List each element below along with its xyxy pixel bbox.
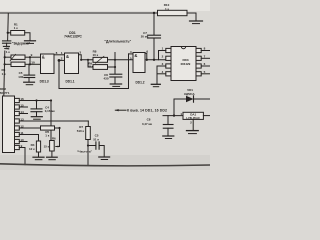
- svg-text:12 к: 12 к: [29, 147, 35, 151]
- svg-text:1: 1: [61, 51, 63, 55]
- svg-text:9: 9: [31, 53, 33, 57]
- svg-text:4: 4: [130, 50, 132, 54]
- svg-text:0,15 мк: 0,15 мк: [45, 109, 56, 113]
- svg-text:20 мк: 20 мк: [141, 35, 149, 39]
- svg-text:74АС132РС: 74АС132РС: [64, 35, 82, 39]
- svg-text:15 к: 15 к: [88, 65, 94, 69]
- svg-text:0,47 мк: 0,47 мк: [142, 122, 153, 126]
- svg-text:1 к: 1 к: [2, 72, 7, 76]
- svg-text:&: &: [66, 54, 69, 59]
- svg-text:DD1.2: DD1.2: [135, 80, 144, 84]
- svg-text:6: 6: [146, 50, 148, 54]
- svg-text:10: 10: [31, 60, 35, 64]
- svg-text:IR4429: IR4429: [181, 62, 191, 66]
- svg-text:К561ГГ1: К561ГГ1: [0, 91, 10, 95]
- svg-text:10: 10: [20, 138, 24, 142]
- svg-text:1 к: 1 к: [45, 134, 50, 138]
- svg-text:R6: R6: [52, 137, 56, 141]
- svg-text:“Частота”: “Частота”: [77, 150, 93, 154]
- svg-text:1 к: 1 к: [14, 26, 19, 30]
- svg-text:5: 5: [130, 56, 132, 60]
- svg-text:1 к: 1 к: [6, 50, 11, 54]
- svg-text:15 к: 15 к: [44, 144, 50, 148]
- svg-text:14: 14: [20, 110, 24, 114]
- svg-text:“Задержка”: “Задержка”: [12, 41, 31, 45]
- svg-text:8: 8: [56, 51, 58, 55]
- svg-text:3: 3: [79, 50, 81, 54]
- svg-text:L78L05AC: L78L05AC: [186, 116, 200, 120]
- svg-text:100: 100: [18, 75, 23, 79]
- svg-text:DD1.3: DD1.3: [40, 80, 49, 84]
- svg-text:2: 2: [61, 57, 63, 61]
- svg-text:51 н: 51 н: [93, 137, 99, 141]
- svg-text:430: 430: [103, 77, 108, 81]
- svg-text:12: 12: [20, 125, 24, 129]
- svg-text:510 к: 510 к: [77, 129, 85, 133]
- svg-text:1 к: 1 к: [165, 7, 170, 11]
- svg-text:К выв. 14 DD1, 16 DD2: К выв. 14 DD1, 16 DD2: [127, 108, 167, 112]
- svg-text:КД521А: КД521А: [184, 92, 194, 96]
- svg-text:13: 13: [20, 118, 24, 122]
- svg-text:&: &: [134, 53, 137, 58]
- svg-text:&: &: [42, 54, 45, 59]
- svg-text:11: 11: [20, 131, 24, 135]
- svg-text:DD1.1: DD1.1: [65, 80, 74, 84]
- svg-text:16: 16: [20, 97, 24, 101]
- svg-text:С8: С8: [147, 118, 151, 122]
- svg-text:15: 15: [20, 104, 24, 108]
- svg-text:10 к: 10 к: [92, 53, 98, 57]
- svg-text:“Длительность”: “Длительность”: [104, 40, 131, 44]
